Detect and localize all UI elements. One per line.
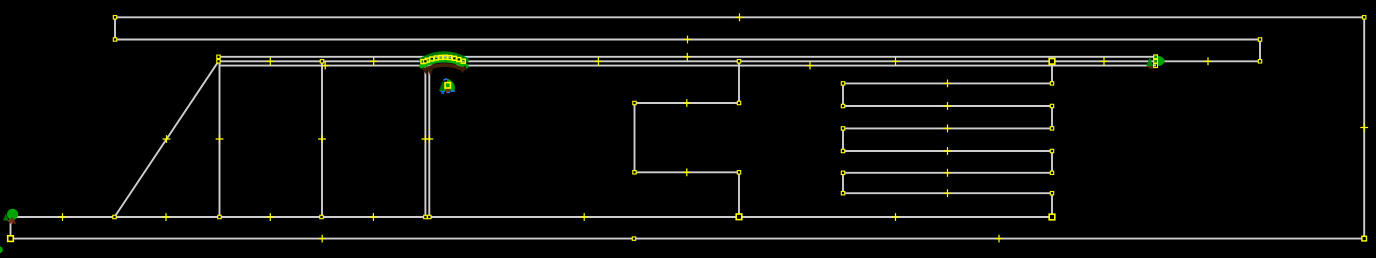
tree small with blue accents	[439, 79, 455, 93]
node grip at 634,239	[632, 237, 635, 240]
node midpoint cross at 425,139	[422, 135, 430, 143]
node grip at 843,106	[841, 104, 844, 107]
node grip at 843,173	[841, 171, 844, 174]
node grip at 1260,40	[1258, 38, 1261, 41]
node midpoint cross at 373,217	[370, 213, 378, 221]
node grip at 322,217	[320, 215, 323, 218]
node grip on small tree	[445, 83, 450, 88]
node midpoint cross at 687,57	[683, 53, 691, 61]
node midpoint cross at 999,239	[995, 235, 1003, 243]
node grips along big canopy	[421, 55, 465, 63]
node midpoint cross at 1104,61	[1100, 57, 1108, 65]
node end grip at 739,217	[736, 214, 742, 220]
node grip at 115,17	[113, 16, 116, 19]
node grip at 218,57	[217, 55, 220, 58]
node midpoint cross at 220,139	[216, 135, 224, 143]
node midpoint cross at 948,128	[944, 125, 952, 133]
node midpoint cross at 687,172	[683, 168, 691, 176]
node grip at 1260,61	[1258, 60, 1261, 63]
wire double vertical left	[424, 61, 426, 217]
wire lower long line	[11, 216, 1053, 218]
node end grip at 10,239	[8, 236, 14, 242]
wire right connector of band	[1259, 40, 1261, 62]
tree clipped at bottom left edge	[0, 246, 3, 253]
node end grip at 1052,217	[1049, 214, 1055, 220]
wire diagonal	[115, 61, 219, 217]
node midpoint cross at 374,61	[370, 57, 378, 65]
node midpoint cross at 948,106	[944, 102, 952, 110]
node midpoint cross at 810,66	[806, 62, 814, 70]
wire road middle line	[219, 60, 1157, 62]
node grip at 739,172	[737, 171, 740, 174]
node corner grip at 1364,239	[1362, 236, 1367, 241]
wire vertical at x219	[219, 61, 221, 217]
node midpoint cross at 948,193	[944, 189, 952, 197]
node end grip at 1052,61	[1049, 59, 1055, 65]
node midpoint cross at 948,151	[944, 147, 952, 155]
wire left edge of top band	[114, 17, 116, 39]
node grip at 1052,128	[1050, 127, 1053, 130]
node midpoint cross at 740,17	[736, 13, 744, 21]
node grip at 1052,106	[1050, 104, 1053, 107]
tree at right end of road	[1146, 56, 1164, 69]
node midpoint cross at 688,40	[684, 36, 692, 44]
node midpoint cross at 325,66	[321, 62, 329, 70]
node midpoint cross at 948,173	[944, 169, 952, 177]
wire top boundary line	[115, 16, 1364, 18]
node grip at 843,83	[841, 82, 844, 85]
node grip at 220,217	[218, 215, 221, 218]
node midpoint cross at 429,139	[425, 135, 433, 143]
tree big arched canopy over road	[422, 54, 467, 75]
wire road bottom line	[219, 65, 1157, 67]
wire vertical at x322	[321, 61, 323, 217]
node grip at 114,217	[113, 215, 116, 218]
node midpoint cross at 896,217	[892, 213, 900, 221]
node grip at 1052,173	[1050, 171, 1053, 174]
node midpoint cross at 584,217	[580, 213, 588, 221]
node grip at 739,61	[737, 60, 740, 63]
node grip at 115,40	[113, 38, 116, 41]
node grip at 1052,83	[1050, 82, 1053, 85]
node grip at 634,103	[633, 101, 636, 104]
node grip at 634,172	[633, 171, 636, 174]
node grip at 425,61	[424, 60, 427, 63]
node grip at 425,217	[424, 215, 427, 218]
node grip at 218,61	[217, 60, 220, 63]
node grip at 322,61	[320, 60, 323, 63]
node midpoint cross at 598,61	[595, 57, 603, 65]
node grip at 843,193	[841, 192, 844, 195]
wire right boundary	[1363, 17, 1365, 238]
node midpoint cross at 166,139	[163, 135, 171, 143]
tree at left bottom corner	[3, 209, 18, 224]
node midpoint cross at 1364,128	[1360, 124, 1368, 132]
wire road top line	[219, 56, 1157, 58]
node midpoint cross at 896,61	[892, 57, 900, 65]
node midpoint cross at 1208,61	[1204, 57, 1212, 65]
node grip at 1052,193	[1050, 192, 1053, 195]
wire second boundary line	[115, 39, 1260, 41]
node midpoint cross at 322,239	[318, 235, 326, 243]
node grip at 1052,151	[1050, 149, 1053, 152]
wire Z-shaped stepped polyline	[635, 61, 740, 217]
node midpoint cross at 270,217	[266, 213, 274, 221]
node midpoint cross at 62,217	[59, 213, 67, 221]
node grip at 429,217	[428, 215, 431, 218]
node grip at 739,103	[737, 101, 740, 104]
node grip at 843,151	[841, 149, 844, 152]
node grip at 1364,17	[1363, 16, 1366, 19]
wire double vertical right	[428, 61, 430, 217]
node midpoint cross at 270,61	[266, 57, 274, 65]
wire serpentine polyline	[843, 61, 1052, 217]
node midpoint cross at 948,83	[944, 80, 952, 88]
node midpoint cross at 322,139	[318, 135, 326, 143]
node grip at 843,128	[841, 127, 844, 130]
node midpoint cross at 166,217	[162, 213, 170, 221]
wire left bottom connector	[10, 217, 12, 239]
node grips at road end over tree	[1154, 55, 1158, 68]
node midpoint cross at 687,103	[683, 99, 691, 107]
wire bottom boundary	[11, 238, 1365, 240]
wire road middle extension	[1156, 60, 1260, 62]
